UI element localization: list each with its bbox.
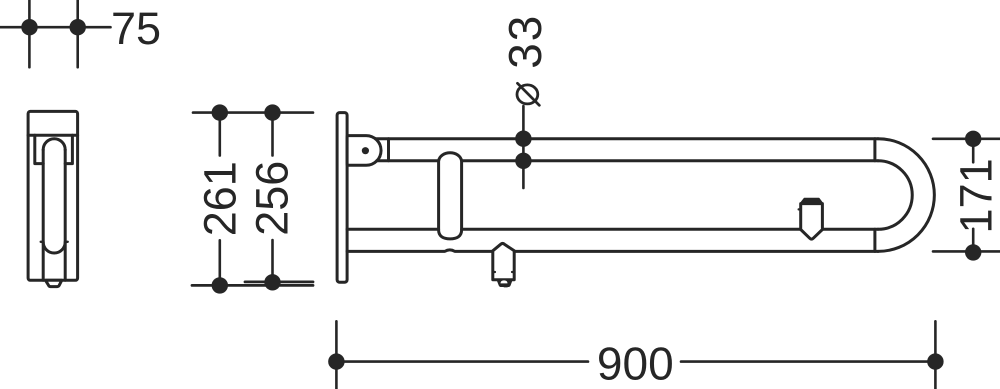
top tube bottom edge left segment [377, 159, 439, 162]
latch clip top cap [801, 199, 823, 204]
svg-text:256: 256 [247, 161, 298, 236]
latch clip body on lower tube [801, 204, 823, 240]
svg-text:261: 261 [194, 161, 245, 236]
u-bend outer arc [878, 139, 934, 252]
dimension 75 left extension line [28, 0, 31, 67]
side view tab foot [51, 286, 58, 288]
bottom tube top edge middle segment [462, 228, 801, 231]
dimension 171 bottom terminator dot [965, 244, 981, 260]
nurse call fitting left tick [493, 271, 495, 273]
dimension 256 dim line lower segment [271, 240, 274, 282]
dimension diameter 33 upper dot [515, 131, 531, 147]
top tube top edge [376, 137, 879, 140]
latch clip left tick [799, 208, 801, 210]
dimension 256 dim line upper segment [271, 113, 274, 156]
bottom tube top edge right segment [823, 228, 878, 231]
svg-text:33: 33 [499, 14, 551, 69]
dimension 261 bottom terminator dot [212, 277, 228, 293]
dimension 256 bottom extension line [245, 280, 313, 283]
dimension 900 right terminator dot [927, 353, 943, 369]
side view bottom tab [46, 280, 62, 286]
wall plate front view [337, 113, 347, 283]
dimension 75 horizontal dim line [0, 26, 111, 29]
hinge body [347, 136, 381, 166]
svg-text:75: 75 [111, 3, 161, 54]
dimension 900 dim line right segment [681, 360, 935, 363]
nurse call fitting body [493, 243, 514, 279]
nurse call fitting right tick [512, 271, 514, 273]
dimension 75 left terminator dot [21, 19, 37, 35]
bottom tube top edge left segment [347, 228, 439, 231]
dimension 900 dim line left segment [336, 360, 588, 363]
u-bend joint line bottom [873, 229, 876, 251]
dimension 171 bottom extension line [933, 250, 1000, 253]
side view right hinge block [65, 135, 72, 163]
dimension 256 top terminator dot [264, 104, 280, 120]
side view top plate line [28, 134, 78, 137]
side view tube left edge [42, 150, 45, 281]
dimension diameter 33 label slash [518, 83, 540, 105]
dimension 900 right extension line [934, 321, 937, 389]
tube joint line at hinge [387, 139, 390, 161]
dimension 900 left terminator dot [328, 353, 344, 369]
support brace body [439, 161, 462, 239]
dimension 900 left extension line [335, 321, 338, 389]
side view tube top arc [43, 139, 65, 150]
dimension 261 top terminator dot [212, 104, 228, 120]
dimension 75 right extension line [76, 0, 79, 67]
dimension 171 dim line upper segment [972, 139, 975, 163]
dimension 261 dim line lower segment [219, 240, 222, 285]
bottom tube bottom edge right segment [514, 250, 878, 253]
dimension diameter 33 dim line [522, 106, 525, 188]
dimension 261 dim line upper segment [219, 113, 222, 156]
side view tube bottom inner arc [43, 242, 65, 253]
dimension 171 top extension line [933, 138, 1000, 141]
side view tube right edge [64, 150, 67, 281]
dimension 256 bottom terminator dot [264, 274, 280, 290]
nurse call fitting cap [497, 280, 512, 287]
side view left hinge block [35, 135, 43, 163]
nurse call fitting cap notch [501, 280, 508, 283]
dimension 75 right terminator dot [70, 19, 86, 35]
dimension 261 top extension line (shared) [193, 111, 313, 114]
hinge pivot dot [362, 147, 369, 154]
dimension 171 dim line lower segment [972, 229, 975, 253]
top tube bottom edge right segment [462, 159, 878, 162]
u-bend joint line top [873, 139, 876, 161]
bottom tube bottom edge left segment with brace bump [347, 250, 493, 252]
side view tube arc end tick right [65, 241, 68, 243]
side view outer body [28, 111, 78, 280]
u-bend inner arc [878, 161, 912, 230]
support brace top collar dome [439, 153, 462, 161]
dimension 171 top terminator dot [965, 131, 981, 147]
dimension diameter 33 lower dot [515, 153, 531, 169]
nurse call fitting foot [503, 286, 508, 288]
svg-text:900: 900 [597, 338, 674, 389]
dimension diameter 33 label circle [517, 85, 538, 104]
side view tube arc end tick left [41, 241, 44, 243]
svg-text:171: 171 [951, 158, 1000, 233]
dimension 261 bottom extension line [192, 284, 313, 287]
